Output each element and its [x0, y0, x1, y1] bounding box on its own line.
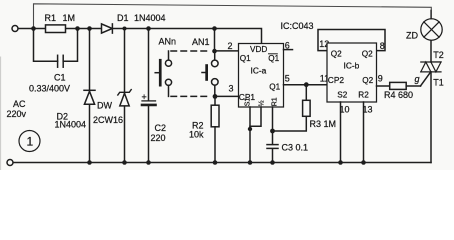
wire: AC line to lamp (top edge) — [34, 4, 432, 29]
wire: D2 branch vertical — [89, 29, 91, 163]
label D1 1N4004 — [117, 13, 166, 23]
wire: R1 pin drop — [272, 107, 274, 131]
svg-text:10: 10 — [340, 105, 350, 115]
pin label 10 — [340, 105, 350, 115]
svg-text:Q2: Q2 — [331, 50, 342, 59]
wire: dashed link ANn-AN1 bottom — [171, 95, 210, 97]
overbar of Q1 (top right) — [269, 53, 278, 55]
resistor R2 10k — [211, 96, 219, 162]
wire: gate diagonal — [421, 72, 431, 86]
wire: triac to bottom rail corner — [430, 72, 432, 163]
svg-text:CP2: CP2 — [328, 75, 345, 85]
svg-text:VDD: VDD — [250, 45, 267, 54]
label R1 1M — [45, 13, 76, 23]
pin label 6 — [285, 41, 290, 51]
svg-text:Q2: Q2 — [362, 76, 373, 85]
svg-text:ZD: ZD — [406, 31, 418, 41]
label AN1 — [192, 37, 210, 47]
label C2 220 — [151, 123, 167, 143]
wire: pin 13 drop to ground — [363, 102, 365, 163]
node G: pin2 / AN1 top junction — [212, 49, 217, 54]
label AC 220v — [7, 99, 27, 119]
svg-text:R1: R1 — [45, 13, 57, 23]
pin label 3 — [229, 84, 234, 94]
node J: S pins junction — [248, 127, 252, 131]
scan artifact: left edge — [0, 57, 2, 170]
resistor R4 680 — [390, 82, 421, 89]
wire: second rail over IC-b (pin12 to pin8) — [318, 30, 385, 51]
pin label 12 — [319, 39, 329, 49]
resistor R3 1M — [303, 85, 311, 117]
svg-text:R1: R1 — [272, 97, 279, 106]
label ANn — [159, 37, 177, 47]
svg-text:680: 680 — [398, 90, 413, 100]
svg-text:IC-b: IC-b — [344, 61, 360, 71]
triac T1/T2 — [421, 62, 441, 72]
diode D1 1N4004 — [102, 24, 113, 33]
IC-a inner labels — [240, 45, 280, 63]
svg-text:+: + — [142, 92, 147, 102]
svg-text:8: 8 — [380, 41, 385, 51]
label DW 2CW16 — [93, 101, 123, 126]
wire: C3 node to R3 bottom — [273, 116, 307, 131]
wire: pin 10 drop to ground — [340, 102, 342, 163]
label IC:C043 — [281, 21, 314, 31]
node B: R1/C1 right junction — [75, 26, 80, 31]
svg-text:2: 2 — [228, 41, 233, 51]
svg-text:R4: R4 — [384, 90, 396, 100]
svg-text:IC-a: IC-a — [251, 66, 267, 76]
IC-a bottom pin names S1 / ½ / R1 (rotated) — [245, 97, 279, 106]
pushbutton AN1 — [202, 51, 218, 96]
pin label g — [415, 74, 420, 84]
capacitor C1 (parallel with R1) — [34, 29, 78, 68]
svg-text:AN1: AN1 — [192, 37, 210, 47]
wire: pin 9 output — [377, 85, 390, 87]
pin label 9 — [378, 74, 383, 84]
label R2 10k — [189, 121, 204, 140]
svg-text:IC:C043: IC:C043 — [281, 21, 314, 31]
node D: DW branch junction — [123, 27, 127, 31]
wire: pin 2 of IC-a — [215, 50, 239, 52]
svg-text:Q1: Q1 — [240, 54, 251, 63]
pin label 2 — [228, 41, 233, 51]
svg-text:AC: AC — [13, 99, 26, 109]
node A: R1/C1 left junction — [31, 26, 36, 31]
IC U1b box (IC-b) — [327, 43, 377, 102]
pin 6 stub of IC-a — [284, 49, 293, 51]
label + polarity — [142, 92, 147, 102]
label C1 0.33/400V — [29, 73, 70, 94]
pin label 5 — [285, 74, 290, 84]
svg-text:2CW16: 2CW16 — [93, 115, 123, 125]
node H: pin3 / R2 junction — [213, 94, 218, 99]
svg-text:0.1: 0.1 — [296, 143, 309, 153]
IC U1a box (IC-a) — [239, 44, 284, 108]
svg-text:S2: S2 — [337, 91, 347, 100]
svg-text:S1: S1 — [245, 98, 252, 107]
wire: middle pin elbow — [250, 107, 261, 126]
svg-text:Q1: Q1 — [269, 83, 280, 92]
IC-b inner labels — [331, 50, 373, 59]
node E: C2 branch junction — [146, 26, 151, 31]
svg-text:ANn: ANn — [159, 37, 177, 47]
pushbutton ANn — [155, 51, 171, 96]
pin label 8 — [380, 41, 385, 51]
svg-text:D1: D1 — [117, 13, 129, 23]
svg-text:R3: R3 — [310, 119, 322, 129]
label C3 0.1 — [282, 143, 309, 153]
svg-text:C3: C3 — [282, 143, 294, 153]
label T1 — [433, 78, 444, 88]
svg-text:R2: R2 — [358, 91, 369, 100]
svg-text:T2: T2 — [433, 50, 444, 60]
svg-text:1M: 1M — [63, 13, 76, 23]
svg-text:13: 13 — [363, 105, 373, 115]
svg-text:½: ½ — [258, 100, 266, 106]
svg-text:220v: 220v — [7, 109, 27, 119]
wire: pin 5 (Q1) to pin 11 (CP2) — [284, 84, 328, 86]
pin label 11 — [320, 74, 329, 84]
svg-text:0.33/400V: 0.33/400V — [29, 84, 70, 94]
wire: top rail (terminal to VDD corner) — [18, 29, 261, 44]
svg-text:1N4004: 1N4004 — [134, 13, 166, 23]
terminal: AC line input (top left) — [12, 26, 18, 32]
wire: pin 3 of IC-a — [215, 95, 239, 97]
capacitor C3 0.1 — [267, 131, 278, 163]
svg-text:C2: C2 — [155, 123, 167, 133]
svg-text:Q1: Q1 — [268, 54, 279, 63]
wire: DW branch vertical — [124, 29, 126, 163]
node I: R3 tap junction — [304, 82, 309, 87]
label ZD — [406, 31, 418, 41]
svg-text:g: g — [415, 74, 420, 84]
node K: C3/R3 node — [270, 129, 275, 134]
resistor R1 — [46, 25, 66, 33]
svg-text:Q2: Q2 — [362, 50, 373, 59]
label D2 1N4004 — [55, 112, 87, 130]
node C: D2 branch junction — [87, 26, 92, 31]
svg-text:6: 6 — [285, 41, 290, 51]
svg-text:9: 9 — [378, 74, 383, 84]
wire: dashed link ANn-AN1 top — [171, 50, 211, 52]
wire: rail to pin2 node — [214, 29, 216, 52]
bottom rail junction dots — [87, 160, 92, 165]
capacitor C2 220 (electrolytic) — [142, 29, 156, 163]
svg-text:10k: 10k — [189, 130, 204, 140]
svg-text:3: 3 — [229, 84, 234, 94]
svg-text:C1: C1 — [54, 73, 66, 83]
diode D2 1N4004 — [84, 90, 95, 104]
wire: lamp to triac — [430, 40, 432, 62]
node F: AN1/pin2 rail junction — [212, 26, 217, 31]
svg-text:T1: T1 — [433, 78, 444, 88]
terminal: AC neutral (bottom left) — [7, 160, 13, 166]
zener diode DW 2CW16 — [118, 90, 131, 106]
wire: bottom rail — [13, 162, 431, 164]
svg-text:5: 5 — [285, 74, 290, 84]
svg-text:220: 220 — [151, 133, 166, 143]
svg-text:1: 1 — [27, 135, 34, 149]
svg-text:1N4004: 1N4004 — [55, 120, 87, 130]
svg-text:1M: 1M — [324, 119, 337, 129]
lamp ZD — [421, 10, 442, 40]
label R3 1M — [310, 119, 337, 129]
symbol: numbered circle 1 — [19, 131, 40, 152]
pin label 13 — [363, 105, 373, 115]
wire: S1 pin drop to ground — [249, 107, 251, 163]
label R4 680 — [384, 90, 413, 100]
svg-text:DW: DW — [97, 101, 112, 111]
label T2 — [433, 50, 444, 60]
